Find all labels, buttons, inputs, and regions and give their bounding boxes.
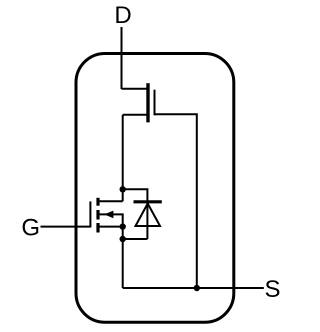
transistor Q1 drain lead — [122, 88, 148, 90]
wire Q1 source down to node A — [122, 115, 124, 190]
svg-text:S: S — [264, 276, 280, 303]
wire G lead — [41, 226, 91, 228]
diode D1 triangle — [136, 204, 161, 227]
transistor Q2 gate line — [89, 201, 91, 227]
wire node A to Q2 drain — [122, 189, 124, 201]
wire node B to node C — [122, 227, 124, 239]
transistor Q2 channel segment bottom — [96, 223, 99, 233]
node B junction dot — [120, 223, 126, 229]
transistor Q2 source lead — [99, 226, 123, 228]
diode D1 through lead — [146, 202, 148, 239]
diode D1 cathode bar — [134, 200, 162, 203]
S rail wire — [123, 287, 264, 289]
diode D1 cathode lead — [123, 189, 148, 201]
diode D1 anode lead — [123, 238, 148, 240]
svg-text:D: D — [114, 2, 131, 29]
package outline — [76, 54, 234, 323]
transistor Q1 gate line — [154, 90, 156, 116]
transistor Q2 body lead — [99, 214, 123, 226]
transistor Q2 channel segment top — [96, 198, 99, 206]
transistor Q2 channel segment middle — [96, 210, 99, 220]
node A junction dot — [120, 186, 126, 192]
transistor Q1 channel bar — [146, 83, 149, 122]
wire node C to S rail — [122, 239, 124, 288]
node D junction dot on S rail — [194, 285, 200, 291]
node C junction dot — [120, 236, 126, 242]
wire D lead — [121, 27, 123, 89]
wire Q1 gate to S rail — [155, 114, 197, 288]
transistor Q2 body arrow — [104, 211, 113, 219]
transistor Q1 source lead — [123, 114, 147, 116]
transistor Q2 drain lead — [99, 200, 123, 202]
svg-text:G: G — [21, 214, 40, 241]
